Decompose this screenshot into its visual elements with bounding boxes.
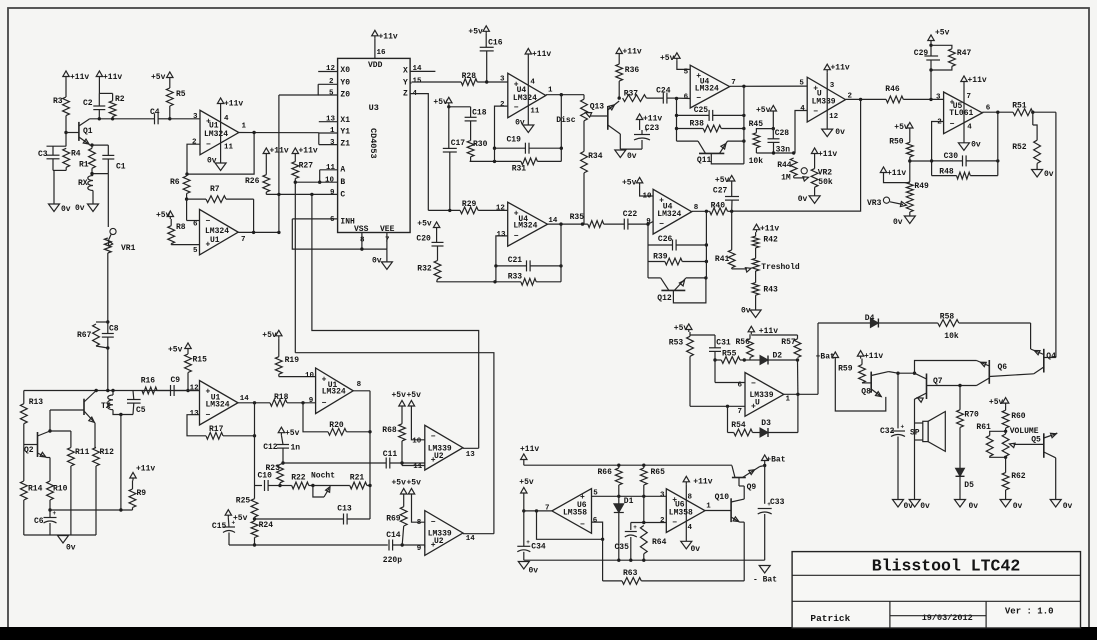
wire R70 to D5 bbox=[959, 427, 961, 468]
node feedback riser bbox=[535, 509, 538, 512]
node +5v C17/C18 tee bbox=[448, 105, 450, 107]
svg-text:+11v: +11v bbox=[270, 147, 289, 156]
title divider vertical 2 bbox=[985, 601, 987, 628]
ground 0v (R52) bbox=[1032, 170, 1043, 178]
op-amp U1 second (pins 6/5/7) bbox=[200, 209, 239, 255]
IC U3 CD4053 box bbox=[338, 58, 411, 232]
wire riser down to R9 wire bbox=[120, 415, 122, 511]
node R18/U1d pin9 bbox=[301, 401, 304, 404]
svg-text:U: U bbox=[755, 399, 760, 408]
svg-text:C34: C34 bbox=[531, 543, 546, 552]
wire R19 to U1d pin10 bbox=[278, 374, 280, 376]
node R68 bottom bbox=[400, 461, 403, 464]
svg-text:10: 10 bbox=[412, 438, 422, 446]
wire Q4 base to right riser bbox=[1044, 357, 1056, 359]
svg-text:+11v: +11v bbox=[693, 477, 712, 486]
node R17/output riser bbox=[253, 434, 256, 437]
wire C29 node to pin3 wire bbox=[930, 70, 932, 99]
node C16/R28 bbox=[485, 80, 488, 83]
wire +11v to VDD pin16 bbox=[374, 38, 376, 58]
wire R3 to Q1 base node bbox=[65, 116, 67, 133]
svg-text:C2: C2 bbox=[83, 99, 93, 108]
svg-text:10k: 10k bbox=[749, 157, 764, 166]
wire Y0/Z0 bracket to U1b output riser bbox=[279, 84, 318, 95]
wire U6a pin6 feedback loop bbox=[537, 511, 603, 539]
power +11v arrow (U1 first) bbox=[217, 98, 223, 104]
svg-text:C17: C17 bbox=[451, 139, 466, 148]
wire Disc bottom to R34 bbox=[583, 121, 585, 152]
svg-text:+: + bbox=[633, 524, 637, 531]
node U4c output bbox=[559, 222, 562, 225]
node VSS/ground wire bbox=[360, 247, 363, 250]
svg-text:R9: R9 bbox=[137, 489, 147, 498]
wire C22 to U4d pin9 bbox=[648, 222, 653, 225]
op-amp LM339 comparator (pins 6/7/1) bbox=[745, 373, 784, 417]
wire U2b output pin14 bbox=[463, 533, 494, 535]
svg-text:+5v: +5v bbox=[233, 514, 248, 523]
trimmer VR2 wiper circle bbox=[801, 168, 807, 174]
svg-text:3: 3 bbox=[660, 492, 665, 500]
svg-text:R41: R41 bbox=[715, 255, 730, 264]
svg-text:Disc: Disc bbox=[556, 116, 575, 125]
svg-text:C: C bbox=[340, 190, 345, 199]
op-amp U LM339 (pins 5/4/2) bbox=[807, 77, 845, 122]
svg-text:LM358: LM358 bbox=[563, 509, 587, 518]
svg-text:C27: C27 bbox=[713, 187, 728, 196]
svg-text:C14: C14 bbox=[386, 531, 401, 540]
svg-text:U2: U2 bbox=[434, 452, 444, 461]
ground 0v (R62) bbox=[1000, 500, 1011, 508]
wire TX bus bbox=[24, 390, 200, 392]
svg-text:+11v: +11v bbox=[864, 352, 883, 361]
svg-text:1M: 1M bbox=[781, 174, 791, 183]
svg-text:8: 8 bbox=[688, 493, 693, 501]
svg-text:INH: INH bbox=[340, 218, 355, 227]
svg-text:C16: C16 bbox=[488, 39, 503, 48]
svg-text:+11v: +11v bbox=[379, 33, 398, 42]
svg-text:+11v: +11v bbox=[224, 100, 243, 109]
wire Q5 emitter up riser bbox=[1056, 432, 1057, 434]
svg-text:Y0: Y0 bbox=[340, 79, 350, 88]
ground 0v (speaker) bbox=[909, 500, 920, 508]
wire output riser up to D4 rail bbox=[817, 323, 819, 394]
node C10/R23 bbox=[278, 484, 281, 487]
wire Z pin4 down to R29 wire bbox=[410, 94, 428, 211]
svg-text:−: − bbox=[696, 94, 701, 103]
node R31 left bbox=[493, 160, 496, 163]
wire C14 run bbox=[229, 544, 388, 546]
op-amp U6 LM358 first (pins 5/6/7) pointing left bbox=[552, 489, 592, 534]
svg-text:3: 3 bbox=[193, 113, 198, 121]
node VR1 line bbox=[106, 389, 109, 392]
wire Q1 emitter to R1/C1 node bbox=[88, 144, 90, 147]
node U1 output bbox=[252, 131, 255, 134]
wire second +5v to U2a pin10 bbox=[411, 409, 424, 440]
svg-text:10k: 10k bbox=[944, 332, 959, 341]
power +11v arrow (LM339 U) bbox=[824, 64, 830, 70]
ground -Bat marker bbox=[759, 566, 770, 574]
svg-text:11: 11 bbox=[413, 463, 423, 471]
wire Q2 collector to TX base riser bbox=[49, 410, 51, 431]
wire U4a pin2 down to C19/R31 bbox=[495, 106, 508, 148]
wire pin4 riser bbox=[795, 111, 807, 154]
svg-text:+11v: +11v bbox=[70, 73, 89, 82]
svg-text:R52: R52 bbox=[1012, 143, 1027, 152]
svg-text:TL061: TL061 bbox=[949, 109, 973, 118]
svg-text:R59: R59 bbox=[838, 365, 853, 374]
node R38 right bbox=[742, 127, 745, 130]
svg-text:+5v: +5v bbox=[285, 429, 300, 438]
svg-text:D1: D1 bbox=[624, 497, 634, 506]
wire Q9 base down to Q10 collector bbox=[738, 478, 740, 487]
svg-text:+5v: +5v bbox=[392, 479, 407, 488]
wire R3 top bbox=[65, 79, 67, 97]
wire D5 to ground bbox=[959, 476, 961, 499]
wire C3/R4 bottom link bbox=[53, 169, 66, 171]
wire R35 to C22 bbox=[604, 223, 625, 225]
svg-text:+: + bbox=[53, 510, 57, 517]
wire R7 down to U1b output bbox=[253, 199, 255, 232]
wire output riser x370 bbox=[369, 391, 371, 519]
wire U4d pin9/C26 riser bbox=[647, 224, 649, 245]
svg-text:R36: R36 bbox=[625, 66, 640, 75]
svg-text:C26: C26 bbox=[658, 235, 673, 244]
svg-text:7: 7 bbox=[738, 408, 743, 416]
wire C24 to U4b pin6 bbox=[677, 97, 691, 99]
svg-text:R11: R11 bbox=[75, 448, 90, 457]
svg-text:0v: 0v bbox=[920, 502, 930, 511]
svg-text:2: 2 bbox=[660, 517, 665, 525]
svg-text:1: 1 bbox=[330, 127, 335, 135]
svg-text:1n: 1n bbox=[291, 444, 301, 453]
wire U6b output to Q10 base bbox=[705, 510, 731, 512]
node R34 bottom bbox=[581, 222, 584, 225]
svg-text:R67: R67 bbox=[77, 331, 92, 340]
node coil top bbox=[111, 389, 114, 392]
op-amp U4 third (pins 12/13/14) bbox=[508, 202, 548, 246]
svg-text:R47: R47 bbox=[957, 49, 972, 58]
wire +5v to U4b pin5 bbox=[677, 61, 690, 70]
node output/D3 riser bbox=[796, 393, 799, 396]
svg-text:+11v: +11v bbox=[831, 64, 850, 73]
node C wire / C-control riser bbox=[310, 193, 313, 196]
svg-text:LM324: LM324 bbox=[513, 94, 537, 103]
wire R53 bottom to pin7 wire bbox=[689, 356, 691, 406]
svg-text:R68: R68 bbox=[382, 426, 397, 435]
svg-text:LM324: LM324 bbox=[695, 85, 719, 94]
svg-text:2: 2 bbox=[192, 138, 197, 146]
ground 0v (VR2) bbox=[809, 196, 820, 204]
wire R20 loop bbox=[303, 403, 328, 432]
svg-text:4: 4 bbox=[688, 524, 693, 532]
wire speaker to ground bbox=[914, 423, 916, 500]
wire R26 bottom to C wire bbox=[265, 192, 267, 194]
svg-text:C13: C13 bbox=[337, 505, 352, 514]
svg-text:R15: R15 bbox=[193, 356, 208, 365]
node D1 top bbox=[617, 495, 620, 498]
svg-text:+: + bbox=[901, 424, 905, 431]
wire D4 rail bbox=[818, 322, 870, 324]
svg-text:Q9: Q9 bbox=[747, 483, 757, 492]
wire second +5v to U2b pin8 bbox=[412, 497, 425, 523]
svg-text:U3: U3 bbox=[369, 103, 379, 113]
wire R6 node to U1b pin6 bbox=[186, 199, 188, 220]
node TX collector bbox=[95, 389, 98, 392]
node C2 bottom bbox=[98, 117, 101, 120]
power +11v arrow (U3 VDD) bbox=[372, 30, 378, 36]
wire R50 node to U5 pin2 riser bbox=[910, 160, 932, 162]
node +5v R45/C28 bbox=[772, 114, 774, 129]
power +11v arrow (R49) bbox=[880, 167, 886, 173]
title separator line 2 bbox=[792, 600, 1080, 602]
wire C8 node to TX bus bbox=[107, 348, 109, 391]
svg-text:Q10: Q10 bbox=[715, 493, 730, 502]
wire R63 up to Q10 emitter bbox=[743, 522, 745, 581]
svg-text:4: 4 bbox=[800, 105, 805, 113]
node R65 top bbox=[642, 464, 645, 467]
svg-text:Ver : 1.0: Ver : 1.0 bbox=[1005, 607, 1054, 617]
svg-text:R70: R70 bbox=[964, 411, 979, 420]
svg-text:4: 4 bbox=[224, 115, 229, 123]
svg-text:Blisstool LTC42: Blisstool LTC42 bbox=[872, 557, 1021, 576]
wire R59 to Q8 base bbox=[862, 382, 871, 384]
wire Q12 base loop bbox=[673, 278, 706, 303]
svg-text:R35: R35 bbox=[570, 213, 585, 222]
node R69 bottom bbox=[401, 543, 404, 546]
svg-text:−: − bbox=[322, 399, 327, 408]
svg-text:R5: R5 bbox=[176, 90, 186, 99]
op-amp U5 TL061 (pins 3/2/6) bbox=[944, 92, 983, 134]
svg-text:R42: R42 bbox=[763, 236, 778, 245]
wire U4c pin13 to C21 bbox=[496, 236, 508, 266]
svg-text:−: − bbox=[659, 220, 664, 229]
power +11v arrow (R9) bbox=[130, 473, 136, 479]
wire bus left down to R13 bbox=[23, 391, 25, 404]
svg-text:0v: 0v bbox=[969, 502, 979, 511]
svg-text:R37: R37 bbox=[624, 90, 639, 99]
wire R68 node to U2a pin11 bbox=[401, 463, 403, 466]
wire to ground (C3/R4) bbox=[53, 170, 55, 204]
power +11v arrow (C2/R2) bbox=[96, 71, 102, 77]
svg-text:R65: R65 bbox=[651, 468, 666, 477]
wire TX emitter down bbox=[94, 423, 96, 448]
wire U6b power vertical bbox=[685, 484, 687, 541]
svg-text:Q2: Q2 bbox=[24, 446, 34, 455]
svg-text:D5: D5 bbox=[964, 481, 974, 490]
svg-text:0v: 0v bbox=[372, 257, 382, 266]
svg-text:Nocht: Nocht bbox=[311, 472, 335, 481]
svg-text:VR1: VR1 bbox=[121, 244, 136, 253]
wire +11v to R49 top bbox=[884, 175, 910, 183]
power +11v arrow (C23) bbox=[636, 114, 642, 120]
svg-text:Z1: Z1 bbox=[340, 139, 350, 148]
svg-text:Q6: Q6 bbox=[998, 363, 1008, 372]
wire C3/R4 top link bbox=[47, 145, 67, 147]
node R9 wire riser bbox=[119, 508, 122, 511]
node R2 bottom bbox=[111, 117, 114, 120]
svg-text:+5v: +5v bbox=[407, 391, 422, 400]
svg-text:12: 12 bbox=[496, 205, 506, 213]
wire U5 output pin6 bbox=[982, 111, 1013, 113]
svg-text:220p: 220p bbox=[383, 556, 402, 565]
svg-text:0v: 0v bbox=[75, 204, 85, 213]
svg-text:C22: C22 bbox=[623, 210, 638, 219]
node Q7 collector rail bbox=[913, 372, 916, 375]
svg-text:0v: 0v bbox=[893, 218, 903, 227]
svg-text:C18: C18 bbox=[472, 109, 487, 118]
svg-text:R28: R28 bbox=[462, 72, 477, 81]
svg-text:10: 10 bbox=[325, 177, 335, 185]
svg-text:CD4053: CD4053 bbox=[368, 128, 378, 159]
svg-text:R33: R33 bbox=[508, 273, 523, 282]
wire R62 to ground bbox=[1005, 490, 1007, 500]
svg-text:3: 3 bbox=[936, 94, 941, 102]
op-amp U4 second (pins 5/6/7) bbox=[690, 65, 729, 108]
svg-text:LM324: LM324 bbox=[513, 222, 537, 231]
node output/feedback riser U4d bbox=[705, 210, 708, 213]
svg-text:0v: 0v bbox=[61, 205, 71, 214]
svg-text:2: 2 bbox=[500, 101, 505, 109]
node R15 bottom bbox=[186, 389, 189, 392]
node output/feedback riser bbox=[859, 98, 862, 101]
svg-text:- Bat: - Bat bbox=[753, 576, 777, 585]
pot wiper to Q5 base bbox=[1014, 443, 1044, 445]
power +5v arrow (C15) bbox=[225, 510, 231, 516]
svg-text:−: − bbox=[672, 519, 677, 528]
wire Q5 collector to ground bbox=[1055, 458, 1057, 500]
svg-text:6: 6 bbox=[684, 94, 689, 102]
svg-text:R43: R43 bbox=[763, 286, 778, 295]
svg-text:R50: R50 bbox=[889, 138, 904, 147]
power +Bat arrow (right) bbox=[762, 455, 768, 461]
wire R13 to Q2 area bbox=[23, 424, 25, 481]
wire LM339 power vertical bbox=[826, 72, 828, 129]
svg-text:−: − bbox=[206, 411, 211, 420]
wire C-control riser and horizontal bbox=[312, 194, 479, 448]
wire R51 to right riser bbox=[1033, 111, 1056, 113]
wire R57 node down riser bbox=[797, 360, 799, 394]
wire +Bat to Q8 emitter loop bbox=[835, 360, 886, 411]
svg-text:C20: C20 bbox=[416, 235, 431, 244]
svg-text:−: − bbox=[206, 141, 211, 150]
svg-text:Q8: Q8 bbox=[861, 388, 871, 397]
node C35 bus bbox=[629, 559, 632, 562]
power +11v arrow (VR2) bbox=[811, 148, 817, 154]
wire tee to C18 bbox=[449, 106, 471, 108]
node C19 left bbox=[493, 147, 496, 150]
svg-text:0v: 0v bbox=[971, 141, 981, 150]
node A/B junction bbox=[318, 181, 321, 184]
svg-text:Q13: Q13 bbox=[590, 103, 605, 112]
svg-text:+11v: +11v bbox=[643, 115, 662, 124]
node C30 right bbox=[996, 159, 999, 162]
svg-text:3: 3 bbox=[330, 139, 335, 147]
wire Q13 collector / C23 / ground bbox=[620, 148, 642, 150]
svg-text:+: + bbox=[232, 520, 236, 527]
svg-text:R7: R7 bbox=[210, 185, 220, 194]
node C12/R23/C11 wire bbox=[281, 461, 284, 464]
svg-text:1: 1 bbox=[548, 87, 553, 95]
svg-text:9: 9 bbox=[309, 397, 314, 405]
wire B-control horizontal bbox=[295, 353, 494, 534]
wire R53 top link to C31 bbox=[690, 334, 715, 336]
svg-text:7: 7 bbox=[731, 79, 736, 87]
svg-text:R3: R3 bbox=[53, 97, 63, 106]
node R33 left bbox=[493, 280, 496, 283]
svg-text:+5v: +5v bbox=[622, 179, 637, 188]
node R67/C8 top bbox=[106, 320, 109, 323]
wire LM339 output pin2 bbox=[846, 98, 887, 100]
wire C34 branch bbox=[523, 511, 525, 546]
wire RX to ground bbox=[92, 191, 94, 205]
svg-text:C10: C10 bbox=[258, 472, 273, 481]
node C28 bottom bbox=[772, 151, 775, 154]
ground 0v (D5) bbox=[955, 500, 966, 508]
wire Q7 base right bbox=[927, 385, 977, 387]
svg-text:+5v: +5v bbox=[151, 73, 166, 82]
svg-text:19/03/2012: 19/03/2012 bbox=[922, 613, 973, 623]
svg-text:16: 16 bbox=[377, 49, 387, 57]
node pin6/feedback bbox=[675, 97, 678, 100]
svg-text:C30: C30 bbox=[944, 152, 959, 161]
wire base to Q1 bbox=[66, 132, 79, 134]
wire feedback riser down to R40 wire bbox=[732, 99, 861, 211]
svg-text:R4: R4 bbox=[71, 150, 81, 159]
node C29/R47 bottom on pin3 wire bbox=[929, 98, 932, 101]
svg-text:R49: R49 bbox=[914, 182, 929, 191]
svg-text:R34: R34 bbox=[588, 152, 603, 161]
svg-text:12: 12 bbox=[190, 385, 200, 393]
node R39 right bbox=[705, 260, 708, 263]
svg-text:D3: D3 bbox=[761, 419, 771, 428]
svg-text:10: 10 bbox=[643, 193, 653, 201]
wire R1/C1 bottom link bbox=[92, 173, 108, 175]
wire U5 power vertical bbox=[963, 84, 965, 143]
svg-text:+11v: +11v bbox=[818, 150, 837, 159]
wire U5 pin2 feedback bbox=[932, 122, 944, 176]
svg-text:+5v: +5v bbox=[156, 211, 171, 220]
wire R11 bottom to bus bbox=[70, 466, 72, 535]
svg-text:50k: 50k bbox=[818, 178, 833, 187]
node R64 bus bbox=[642, 559, 645, 562]
wire U4c output bbox=[548, 223, 588, 225]
wire U1c output pin14 bbox=[238, 402, 270, 404]
op-amp U1 first (pins 3/2/1) bbox=[200, 110, 239, 155]
svg-text:5: 5 bbox=[799, 80, 804, 88]
node pin6/R63 riser bbox=[601, 538, 604, 541]
svg-text:0v: 0v bbox=[1044, 170, 1054, 179]
svg-text:13: 13 bbox=[497, 231, 507, 239]
op-amp U4 first (pins 3/2/1) bbox=[508, 73, 546, 118]
wire C21 node down to R33 bbox=[495, 266, 497, 282]
svg-text:7: 7 bbox=[241, 236, 246, 244]
wire U6a pin5 wire bbox=[592, 495, 667, 497]
svg-text:R46: R46 bbox=[885, 85, 900, 94]
node R29/C17 bbox=[448, 209, 451, 212]
wire output riser down bbox=[743, 86, 745, 164]
power +11v arrow (R27) bbox=[292, 148, 298, 154]
svg-text:C8: C8 bbox=[109, 325, 119, 334]
svg-text:11: 11 bbox=[326, 164, 336, 172]
wire R27 to B wire and down to LM339 out B-control bbox=[294, 179, 296, 353]
svg-text:−: − bbox=[431, 518, 436, 527]
wire +Bat down through C33 bbox=[764, 466, 766, 504]
svg-text:R64: R64 bbox=[652, 538, 667, 547]
title block box bbox=[792, 552, 1080, 628]
svg-text:−: − bbox=[813, 108, 818, 117]
svg-text:VDD: VDD bbox=[368, 61, 383, 70]
svg-text:LM339: LM339 bbox=[750, 391, 774, 400]
